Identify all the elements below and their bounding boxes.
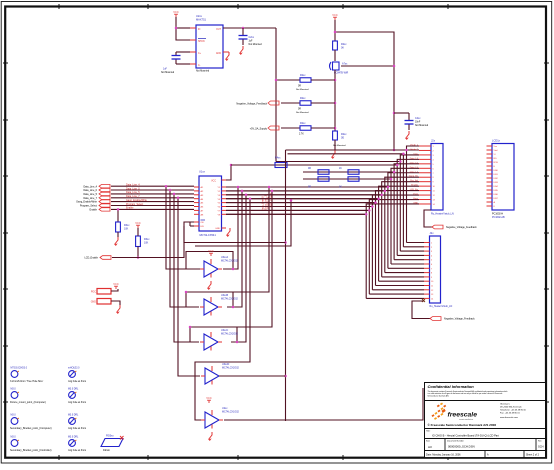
pins LCD101 <box>487 146 493 206</box>
net label +5V_5A_Supply <box>250 126 279 131</box>
svg-text:Fixture_mount_point_(Computer): Fixture_mount_point_(Computer) <box>10 401 46 404</box>
svg-text:00000000_SCH.DSN: 00000000_SCH.DSN <box>448 445 475 449</box>
svg-text:MC74LCX2G02: MC74LCX2G02 <box>221 260 239 263</box>
net label LCD_Enable <box>84 256 111 260</box>
svg-text:FidGlo: FidGlo <box>103 450 110 452</box>
resistor R204 0K <box>333 41 348 50</box>
svg-text:1uF: 1uF <box>163 69 168 71</box>
svg-text:MAX751: MAX751 <box>196 18 207 22</box>
wire R205 to rail <box>311 79 335 81</box>
bus staircase corners and drops to J202 <box>226 146 424 298</box>
svg-text:Title:: Title: <box>426 430 431 433</box>
connector J202 body <box>430 231 453 308</box>
svg-text:VCC: VCC <box>113 282 119 286</box>
svg-text:www.freescale.com: www.freescale.com <box>500 416 518 419</box>
net label Enable <box>90 208 110 212</box>
power VCC at R302 <box>135 221 141 228</box>
net label Negative_Voltage_Feedback right <box>424 210 477 229</box>
svg-text:Data_Line_5: Data_Line_5 <box>83 193 97 196</box>
svg-text:GND: GND <box>91 301 97 304</box>
op-amp U301D buffer <box>201 363 240 385</box>
svg-text:0D: 0D <box>341 137 344 140</box>
wire VCC rail to right column <box>335 32 394 150</box>
node VCC rail tee <box>334 31 337 34</box>
svg-text:VCC: VCC <box>211 181 216 183</box>
svg-text:PC1602-AB: PC1602-AB <box>492 216 505 219</box>
svg-text:freescale: freescale <box>448 412 478 419</box>
svg-text:VCC: VCC <box>173 10 179 14</box>
svg-text:OE: OE <box>201 222 205 224</box>
svg-text:Confidential Information: Confidential Information <box>428 384 475 389</box>
net label Data_Line_4 <box>83 185 110 189</box>
ground arrow at U201 GND <box>226 52 230 61</box>
wire feedback tie row <box>184 226 286 243</box>
svg-text:GND: GND <box>413 202 418 204</box>
svg-text:OUT: OUT <box>216 29 221 31</box>
svg-text:U2xx: U2xx <box>196 14 203 18</box>
svg-text:10K: 10K <box>124 228 129 231</box>
svg-text:0R: 0R <box>298 109 301 111</box>
svg-text:LCD1x: LCD1x <box>492 139 501 143</box>
svg-text:Data_Line_4: Data_Line_4 <box>83 185 97 188</box>
net label Data_Line_5 <box>83 192 110 196</box>
svg-text:10K: 10K <box>144 242 149 245</box>
net names red vertical at outputs <box>261 192 273 211</box>
resistor R206 0R <box>296 97 311 114</box>
svg-text:Program_Select: Program_Select <box>126 203 143 206</box>
wire Q201 down rail <box>334 70 336 131</box>
svg-text:Data_Line_4: Data_Line_4 <box>126 184 140 187</box>
node tap junctions <box>165 185 180 199</box>
svg-text:VCC: VCC <box>135 221 141 225</box>
svg-text:3.2mm/6.0mm 'True Hole Size': 3.2mm/6.0mm 'True Hole Size' <box>10 380 44 383</box>
connector LCD101 body <box>492 139 514 220</box>
svg-text:Data_L5: Data_L5 <box>410 166 419 169</box>
pins J201 <box>419 146 431 204</box>
drill hole HOLE1 <box>68 368 86 384</box>
ground arrow under R207 <box>332 150 336 159</box>
ground arrow under tie <box>117 305 121 314</box>
title row <box>425 429 546 439</box>
svg-text:Rev: Rev <box>538 441 542 443</box>
svg-text:C4xx: C4xx <box>415 117 421 120</box>
power VCC small at tie <box>113 282 119 289</box>
border zone ticks top <box>59 4 448 9</box>
date row <box>425 451 546 458</box>
net label Negative_Voltage_Feedback left <box>236 101 279 106</box>
svg-text:Program_Select: Program_Select <box>80 205 97 208</box>
wire return lower tie <box>195 200 291 246</box>
svg-text:+5V_5A_Supply: +5V_5A_Supply <box>250 128 268 131</box>
net names red on data wires <box>126 184 147 210</box>
power VCC rail top <box>332 13 338 20</box>
svg-text:Not Mounted: Not Mounted <box>161 71 175 74</box>
svg-text:Vstub_2: Vstub_2 <box>410 148 419 151</box>
connector J201 body <box>431 139 454 216</box>
resistor R208 2.7K <box>299 122 311 136</box>
wire R301 to gnd <box>117 232 119 237</box>
node return joins <box>268 186 274 192</box>
ground arrow at U101 GND <box>227 228 231 237</box>
freescale logo text <box>448 412 478 421</box>
svg-text:R2xx: R2xx <box>300 74 306 77</box>
svg-text:R2xx: R2xx <box>300 122 306 125</box>
wire VCC feed to connector <box>394 149 419 151</box>
wire taps to buffer inputs <box>166 186 200 376</box>
node feedback joins <box>185 268 239 344</box>
svg-text:Telephone: +45 43 48 80 00: Telephone: +45 43 48 80 00 <box>500 410 527 412</box>
svg-text:mtg hole at 3mm: mtg hole at 3mm <box>68 449 86 452</box>
svg-text:mHOLE3.0: mHOLE3.0 <box>68 368 80 370</box>
resistor R102 row <box>308 168 359 174</box>
svg-text:M3.0: M3.0 <box>11 389 17 391</box>
op-amp U301A MC74LCX buffer <box>200 256 239 278</box>
svg-text:Not Mounted: Not Mounted <box>196 70 210 73</box>
wires data lines to U101 <box>111 186 194 209</box>
node staircase junctions <box>365 149 408 216</box>
resistor R205 0R <box>296 74 311 91</box>
net label Data_Line_0 <box>83 188 110 192</box>
wires U101 outputs <box>226 187 388 214</box>
svg-text:A3: A3 <box>428 445 432 449</box>
wire feedback boxes <box>186 252 237 343</box>
svg-text:M3.0: M3.0 <box>11 415 17 417</box>
svg-text:MTG3.0CHD3.0: MTG3.0CHD3.0 <box>11 368 28 370</box>
svg-text:GND: GND <box>215 228 220 230</box>
svg-text:VCC: VCC <box>413 153 418 155</box>
op-amp U202 MC74LCX buffer <box>201 407 240 429</box>
svg-text:Ru_Heater/Vstub_LN: Ru_Heater/Vstub_LN <box>430 305 453 308</box>
wire U101 VCC up to bus <box>226 165 231 180</box>
mounting hole MTG4 <box>10 437 52 453</box>
pin labels U101 <box>201 186 221 230</box>
net label Data_Line_7 <box>83 196 110 200</box>
confidential information box <box>425 383 546 401</box>
resistor R401 on bus <box>275 157 287 168</box>
svg-text:Gang_Enable/Write: Gang_Enable/Write <box>126 199 147 202</box>
svg-text:0R: 0R <box>308 168 311 170</box>
svg-text:MC74LCX1G02: MC74LCX1G02 <box>222 411 240 414</box>
pin numbers J201 <box>433 146 436 206</box>
border zone ticks bottom <box>59 455 448 460</box>
mounting hole MTG3 <box>10 415 52 431</box>
wire R208 to rail <box>311 127 335 129</box>
wire Enable tap down <box>117 209 119 222</box>
svg-text:Negative_Voltage_Feedback: Negative_Voltage_Feedback <box>236 103 267 106</box>
drill hole HOLE2 <box>68 389 86 405</box>
svg-text:Negative_Voltage_Feedback: Negative_Voltage_Feedback <box>446 226 477 229</box>
svg-text:semiconductor: semiconductor <box>459 418 473 421</box>
svg-text:C2xx: C2xx <box>249 36 255 39</box>
net label Program_Select <box>80 204 110 208</box>
svg-text:GND: GND <box>216 53 221 55</box>
svg-text:Data_Line_7: Data_Line_7 <box>126 195 140 198</box>
node VCC feed <box>393 149 396 152</box>
svg-text:0K: 0K <box>341 47 344 50</box>
svg-text:LCD_Enable: LCD_Enable <box>84 257 98 260</box>
svg-text:0R: 0R <box>298 86 301 88</box>
resistor R301 10K pulldown <box>116 222 131 232</box>
pins J202 <box>424 243 430 299</box>
svg-text:Enable: Enable <box>411 185 419 187</box>
ground arrow under C404 <box>406 131 410 140</box>
svg-text:M3.0 DRL: M3.0 DRL <box>68 437 79 439</box>
node Enable tap <box>117 208 120 211</box>
pins U101 right <box>222 180 227 228</box>
node rail junctions <box>334 79 337 130</box>
svg-text:Vneg: Vneg <box>413 194 419 196</box>
svg-text:Sheet 2 of 2: Sheet 2 of 2 <box>526 454 540 457</box>
node lower tie <box>290 199 293 202</box>
svg-text:Ru_Heater/Vstub_LN: Ru_Heater/Vstub_LN <box>431 213 454 216</box>
svg-text:VCC: VCC <box>332 13 338 17</box>
svg-text:FID0xx: FID0xx <box>106 435 114 438</box>
wire VCC rail down <box>334 20 336 41</box>
svg-text:mtg hole at 3mm: mtg hole at 3mm <box>68 380 86 383</box>
svg-text:Enable: Enable <box>126 207 134 210</box>
net tie POC <box>91 289 118 295</box>
svg-text:Data_L4: Data_L4 <box>410 157 419 160</box>
fiducial FID001 <box>101 435 124 453</box>
svg-text:Secondary_Bracket_point_(Contr: Secondary_Bracket_point_(Controller) <box>10 449 52 452</box>
svg-text:Gang_Enable/Write: Gang_Enable/Write <box>76 201 97 204</box>
wire LCD_Enable to U101 OE <box>112 222 194 258</box>
power VCC at U202 <box>206 396 212 403</box>
border zone ticks left-right <box>3 63 549 402</box>
wire J202 to NVF arrow <box>412 301 430 319</box>
svg-text:VCC: VCC <box>208 249 214 253</box>
pin numbers J202 <box>431 243 434 301</box>
capacitor C202 at C+/C- <box>161 52 190 74</box>
svg-text:Data_Line_0: Data_Line_0 <box>126 187 140 190</box>
net label Negative_Voltage_Feedback bottom <box>430 317 475 321</box>
wire R204 to Q201 <box>334 50 336 61</box>
wire R206 to rail <box>311 102 335 104</box>
svg-text:DK-2600 Mib./Denmark: DK-2600 Mib./Denmark <box>500 406 523 409</box>
svg-text:Not Mounted: Not Mounted <box>296 111 309 114</box>
svg-text:Glostrup C: Glostrup C <box>500 403 510 406</box>
svg-text:SHDN: SHDN <box>198 41 205 43</box>
wire link Q201 collector <box>341 65 394 67</box>
ground arrow under R301 <box>115 237 119 246</box>
svg-text:R4xx: R4xx <box>275 157 281 160</box>
wire U201 OUT <box>223 27 276 29</box>
svg-text:Not Mounted: Not Mounted <box>415 124 429 127</box>
capacitor C203 on OUT <box>239 28 263 46</box>
svg-text:MC74LCX541: MC74LCX541 <box>200 233 217 237</box>
node R302/LCD_Enable <box>137 256 140 259</box>
wire R302 to LCD_Enable net <box>137 247 139 258</box>
svg-text:Secondary_Bracket_point_(Compu: Secondary_Bracket_point_(Computer) <box>10 427 52 430</box>
svg-text:EN: EN <box>201 226 204 228</box>
ground arrow under U202 <box>209 432 213 441</box>
svg-text:U1xx: U1xx <box>199 170 206 174</box>
svg-text:M3.0: M3.0 <box>11 437 17 439</box>
wire returns from bus to feedback boxes <box>233 187 272 327</box>
wire U202 output to right <box>224 388 423 420</box>
transistor Q201 BC847B <box>330 62 349 75</box>
svg-text:LCD_En: LCD_En <box>410 189 419 191</box>
svg-text:Data_Line_5: Data_Line_5 <box>126 191 140 194</box>
svg-text:Not Mounted: Not Mounted <box>249 43 263 46</box>
pins U201 right <box>223 28 229 52</box>
svg-text:VCC: VCC <box>206 396 212 400</box>
op IC U101 MC74LCX541 body <box>199 170 222 238</box>
svg-text:Negative_Voltage_Feedback: Negative_Voltage_Feedback <box>444 318 475 321</box>
svg-text:mtg hole at 3mm: mtg hole at 3mm <box>68 427 86 430</box>
svg-text:M3.0 DRL: M3.0 DRL <box>68 415 79 417</box>
node output junctions <box>237 186 252 200</box>
node bus left verticals <box>284 241 287 377</box>
svg-text:mtg hole at 3mm: mtg hole at 3mm <box>68 401 86 404</box>
op IC U201 MAX751 regulator body <box>196 14 223 73</box>
svg-text:Data_Line_0: Data_Line_0 <box>83 189 97 192</box>
wire OUT vertical rail to bus <box>275 28 277 162</box>
resistor R104 row <box>308 177 359 189</box>
no-connect X on J202 pin <box>422 299 425 302</box>
node OUT junction <box>242 27 245 30</box>
power VCC at U301A <box>208 249 214 256</box>
net label Gang_Enable/Write <box>76 200 110 204</box>
ground arrow below C203 <box>240 46 244 55</box>
svg-text:2.7K: 2.7K <box>299 134 304 136</box>
svg-text:BC847B W/R: BC847B W/R <box>334 72 348 75</box>
wire VCC stub R302 <box>137 228 139 236</box>
svg-text:C-: C- <box>198 65 201 67</box>
svg-text:1K: 1K <box>339 168 342 170</box>
drill hole HOLE3 <box>68 415 86 431</box>
svg-text:J2x: J2x <box>431 139 436 143</box>
svg-text:10nF: 10nF <box>415 122 421 124</box>
ground arrow under U301A <box>208 281 212 290</box>
net tie GND <box>91 299 120 306</box>
pins U101 left <box>194 187 199 226</box>
svg-text:Enable: Enable <box>90 209 98 212</box>
drill hole HOLE4 <box>68 437 86 453</box>
svg-text:Document Number: Document Number <box>447 440 464 443</box>
wire R207 to ground <box>334 140 336 150</box>
svg-text:IO CHIO B - Hercial Controller: IO CHIO B - Hercial Controller Board (TA… <box>432 434 499 438</box>
mounting hole MTG1 <box>10 368 44 384</box>
pins U201 left <box>190 28 196 64</box>
op-amp U301C buffer <box>200 329 239 351</box>
svg-text:1uF: 1uF <box>249 41 254 43</box>
net names red at J201 pins <box>409 144 419 205</box>
node U101 VCC <box>230 164 233 167</box>
svg-text:Date: Monday, January 16, 200: Date: Monday, January 16, 2006 <box>426 454 461 457</box>
wire U301D output <box>219 375 286 377</box>
op-amp U301B buffer <box>200 294 239 316</box>
freescale logo box <box>425 401 546 429</box>
svg-text:Vstub_1: Vstub_1 <box>410 144 419 147</box>
svg-text:R2xx: R2xx <box>300 97 306 100</box>
capacitor C404 10nF <box>405 113 429 130</box>
svg-text:© Freescale Semiconductor Danm: © Freescale Semiconductor Danmark A/S 20… <box>428 423 497 427</box>
address block <box>500 403 527 420</box>
freescale logo wings <box>432 403 447 420</box>
wire +5V to R208 <box>281 127 300 129</box>
svg-text:Data_Line_7: Data_Line_7 <box>83 197 97 200</box>
svg-text:1K: 1K <box>339 187 342 189</box>
svg-text:Prg_Sel: Prg_Sel <box>410 179 418 182</box>
svg-text:MC74LCX2G02: MC74LCX2G02 <box>221 333 239 336</box>
svg-text:RS: RS <box>494 158 498 160</box>
node junction VCC/IN <box>175 27 178 30</box>
wire bus left verticals to op-amps <box>285 150 287 421</box>
node link at x394 <box>393 65 396 115</box>
document number row <box>425 439 546 451</box>
power VCC regulator input <box>173 10 179 17</box>
svg-text:MC74LCX2G02: MC74LCX2G02 <box>222 367 240 370</box>
svg-text:A7xx: A7xx <box>342 63 348 66</box>
svg-text:J2x: J2x <box>430 231 435 235</box>
svg-text:Gang_En: Gang_En <box>409 176 419 178</box>
title block frame <box>425 383 546 459</box>
resistor R302 10K pullup <box>136 236 151 247</box>
svg-text:SCH: SCH <box>538 445 544 449</box>
resistor R207 0R Not Mounted <box>333 131 348 147</box>
svg-text:Not Mounted: Not Mounted <box>296 88 309 91</box>
wire OUT to R205 row <box>276 79 300 81</box>
svg-text:POC: POC <box>91 291 96 294</box>
svg-text:M3.0 DRL: M3.0 DRL <box>68 389 79 391</box>
svg-text:MC74LCX2G02: MC74LCX2G02 <box>221 298 239 301</box>
mounting hole MTG2 <box>10 389 46 405</box>
wire to capacitor C404 <box>394 112 409 114</box>
svg-text:0R: 0R <box>308 187 311 189</box>
svg-text:Fax: +45 43 48 80 01: Fax: +45 43 48 80 01 <box>500 413 521 415</box>
svg-text:Data_L7: Data_L7 <box>410 170 419 173</box>
wire NVF to R206 <box>281 102 300 104</box>
wire VCC to IN and SHDN pins <box>176 17 190 40</box>
pin names LCD101 <box>494 146 499 208</box>
wire buffer outputs up to bus <box>195 187 250 420</box>
svg-text:IN: IN <box>198 29 201 31</box>
svg-text:Data_L0: Data_L0 <box>410 161 419 164</box>
node OUT/R205 <box>275 79 278 82</box>
